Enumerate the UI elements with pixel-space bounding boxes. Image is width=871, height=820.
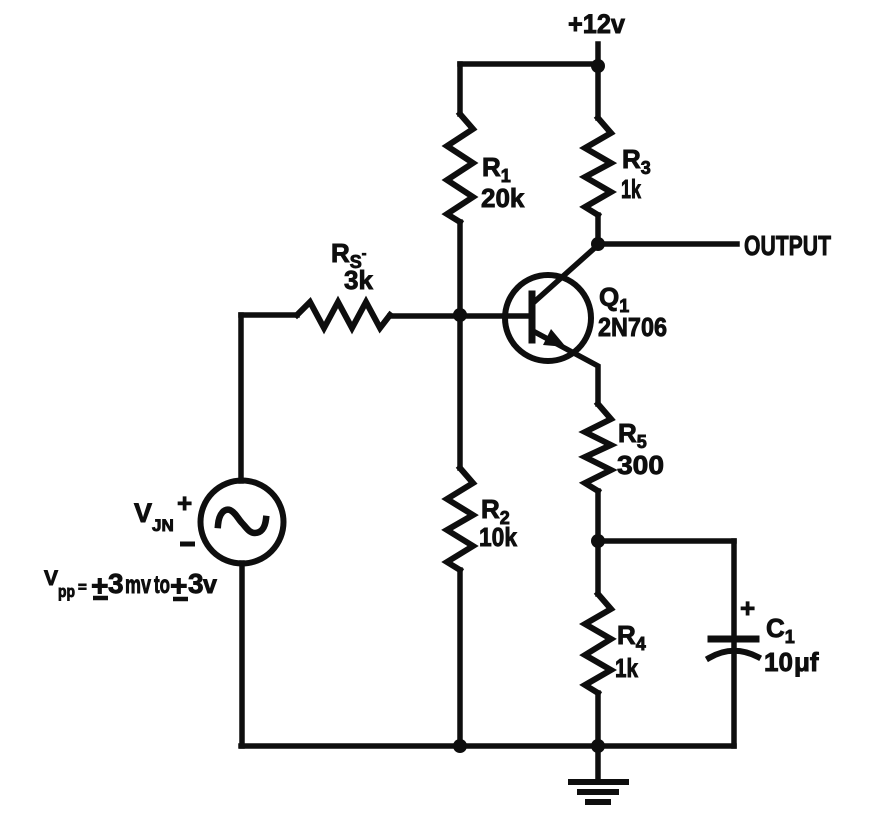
wire left column upper	[238, 315, 244, 481]
transistor Q1 base bar	[529, 294, 536, 340]
capacitor C1 curved plate	[709, 651, 758, 658]
node dot +12v	[591, 59, 605, 73]
svg-text:10: 10	[764, 647, 793, 677]
svg-text:+: +	[740, 593, 755, 623]
wire bottom rail	[241, 743, 734, 749]
svg-text:VJN: VJN	[134, 498, 174, 535]
wire left column lower	[239, 563, 245, 746]
svg-text:R5: R5	[618, 418, 647, 452]
node dot base	[453, 308, 467, 322]
wire R5 bottom lead	[595, 491, 601, 541]
wire output	[598, 241, 737, 247]
ground bar 3	[588, 799, 608, 805]
ground bar 2	[580, 789, 616, 795]
wire base left segment	[241, 312, 297, 318]
svg-text:OUTPUT: OUTPUT	[744, 230, 831, 261]
wire R2 bottom lead	[457, 570, 463, 746]
svg-text:v: v	[203, 571, 217, 599]
svg-text:=: =	[78, 579, 87, 596]
transistor Q1 emitter arrow	[543, 329, 566, 347]
svg-text:1k: 1k	[621, 174, 641, 204]
svg-text:+12v: +12v	[568, 9, 625, 39]
svg-text:+: +	[177, 488, 192, 518]
resistor R3	[585, 118, 611, 215]
ground stem	[595, 746, 601, 782]
svg-text:20k: 20k	[481, 183, 525, 213]
wire R3 top lead	[595, 66, 601, 118]
label VIN minus	[180, 542, 195, 547]
capacitor C1 top plate	[711, 636, 756, 643]
wire top rail	[460, 61, 598, 67]
source VIN sine wave	[218, 510, 266, 533]
+12v supply stub	[595, 44, 601, 66]
resistor R1	[447, 114, 473, 222]
label Vpp range	[44, 567, 217, 603]
transistor Q1 circle	[505, 275, 591, 361]
svg-text:3k: 3k	[344, 265, 373, 295]
svg-text:to: to	[154, 571, 170, 599]
wire R4 bottom lead	[595, 693, 601, 746]
svg-text:3: 3	[108, 568, 124, 599]
svg-text:10k: 10k	[479, 522, 517, 552]
node dot ground	[591, 739, 605, 753]
svg-text:1k: 1k	[615, 653, 638, 683]
ground bar 1	[571, 779, 626, 785]
svg-text:pp: pp	[58, 582, 75, 601]
resistor RS	[297, 302, 390, 328]
transistor Q1 emitter	[533, 331, 598, 404]
svg-text:300: 300	[617, 450, 664, 480]
svg-text:V: V	[44, 567, 58, 590]
node dot bottom left	[453, 739, 467, 753]
wire C1 branch	[731, 541, 737, 746]
wire R3 bottom lead	[595, 215, 601, 244]
svg-text:R3: R3	[622, 144, 651, 178]
node dot output	[591, 237, 605, 251]
svg-text:μf: μf	[794, 647, 819, 677]
wire R4 top lead	[595, 541, 601, 594]
svg-text:3: 3	[188, 568, 204, 599]
svg-text:Q1: Q1	[599, 282, 629, 316]
resistor R2	[447, 468, 473, 570]
svg-text:R4: R4	[617, 620, 646, 654]
resistor R4	[585, 594, 611, 693]
resistor R5	[585, 404, 611, 491]
wire node row to C1	[598, 538, 734, 544]
svg-text:mv: mv	[125, 571, 151, 599]
svg-text:R1: R1	[482, 152, 511, 186]
source VIN circle	[201, 481, 284, 564]
wire R1 bottom to base node to R2	[457, 222, 463, 468]
wire base right segment	[390, 313, 532, 319]
svg-text:2N706: 2N706	[598, 312, 667, 342]
svg-text:C1: C1	[766, 613, 795, 647]
node dot R5/R4/C1	[591, 534, 605, 548]
transistor Q1 collector	[533, 245, 598, 303]
wire R1 top lead	[457, 64, 463, 114]
